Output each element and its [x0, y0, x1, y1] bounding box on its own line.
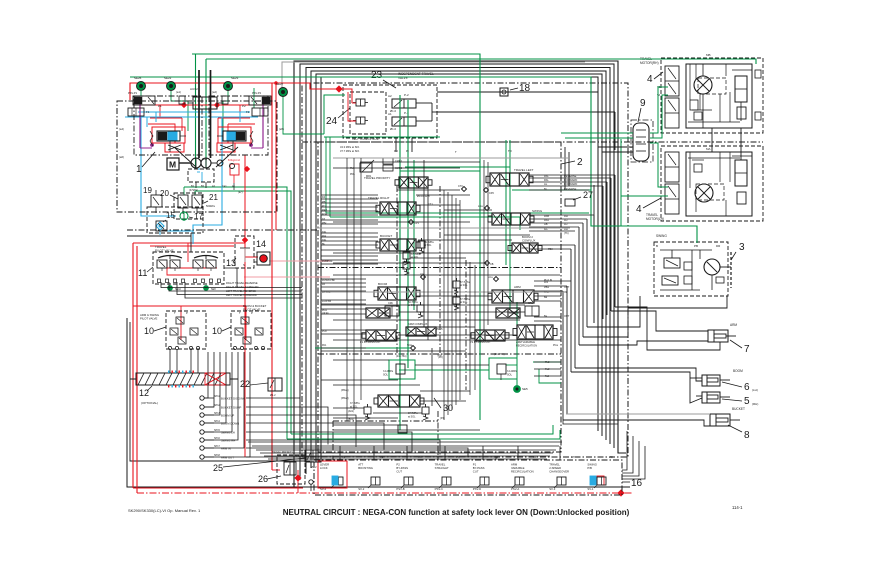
svg-text:BUCKET: BUCKET — [380, 234, 392, 238]
svg-text:SE23: SE23 — [231, 76, 239, 80]
svg-text:DOWN PBb: DOWN PBb — [322, 279, 335, 282]
boom cylinder 5 — [702, 392, 720, 403]
svg-text:RIGHT TRAVEL REVERSE: RIGHT TRAVEL REVERSE — [226, 281, 258, 285]
red swing pb solenoid — [597, 476, 604, 485]
pump swash diagonal right — [216, 147, 238, 167]
svg-text:MOTOR(RH): MOTOR(RH) — [640, 61, 659, 65]
svg-text:SWING RH: SWING RH — [221, 439, 235, 443]
pump regulator spool right — [223, 131, 246, 141]
bottom relief a — [364, 407, 371, 414]
svg-text:PSV-B: PSV-B — [396, 487, 404, 491]
svg-text:(a6): (a6) — [119, 155, 124, 159]
gear pump circle — [217, 160, 223, 166]
svg-text:PBt: PBt — [322, 201, 326, 204]
pump sensor SE23 — [224, 82, 233, 91]
port G circle — [309, 480, 313, 484]
port connector BOOM DOWN — [200, 421, 204, 425]
red to box 13 14 — [243, 238, 248, 243]
check valve 27 — [565, 199, 575, 206]
svg-text:DUMP Ak: DUMP Ak — [322, 260, 333, 263]
spool boom2 conflux — [512, 243, 538, 253]
swing motor relief valves — [664, 258, 680, 268]
wire valve23 to block — [395, 138, 397, 152]
svg-text:SV-4: SV-4 — [320, 487, 327, 491]
svg-text:LCa: LCa — [478, 205, 483, 208]
red left long verticals — [132, 243, 134, 488]
red pilot valves 10 supply — [133, 305, 246, 307]
svg-text:P2 BY-PASS CUT: P2 BY-PASS CUT — [470, 340, 491, 344]
wire bottom verticals into solenoid row — [317, 446, 319, 460]
svg-text:P-2: P-2 — [404, 93, 409, 97]
svg-text:(a5): (a5) — [279, 127, 284, 131]
svg-text:23: 23 — [371, 70, 383, 81]
control valve assembly outer dash-dot box — [302, 83, 628, 457]
svg-text:(a3): (a3) — [202, 157, 207, 161]
svg-text:Pa2: Pa2 — [545, 368, 550, 371]
hose coupler ticks top — [168, 371, 194, 374]
svg-text:BUCKET DIGGING: BUCKET DIGGING — [221, 397, 245, 401]
svg-text:PA1: PA1 — [322, 344, 327, 347]
travel motor LH swash dashed — [696, 184, 724, 200]
green relief connection left — [399, 369, 415, 371]
svg-text:DIG: DIG — [322, 231, 326, 234]
spool boom — [378, 287, 416, 300]
pump regulator spool left — [157, 131, 180, 141]
hose rupture item 12 — [136, 373, 230, 385]
svg-text:TRAVEL PRIORITY: TRAVEL PRIORITY — [272, 451, 293, 454]
wire motor feed right — [564, 147, 566, 190]
regulator spring left — [150, 131, 153, 146]
svg-text:Ø1.0: Ø1.0 — [390, 109, 397, 113]
svg-text:PAA: PAA — [544, 218, 549, 222]
svg-text:BL: BL — [544, 187, 548, 191]
valve 19 — [151, 195, 162, 207]
green line valve block vertical 1 — [399, 95, 401, 430]
valve 20 — [178, 195, 188, 208]
swing motor internal wires — [671, 250, 673, 258]
pump swash diagonal left — [174, 147, 196, 167]
check CB — [485, 261, 490, 266]
svg-text:SP13: SP13 — [214, 412, 221, 415]
svg-text:MOTOR(LH): MOTOR(LH) — [646, 217, 664, 221]
pump drain stubs — [195, 182, 197, 188]
spool p2 bypass cut — [475, 330, 505, 341]
pump unit dash-dot box — [117, 101, 277, 212]
svg-text:SWING: SWING — [532, 209, 543, 213]
pump sensor SE26 — [137, 82, 146, 91]
red vertical from box13 down — [244, 155, 246, 238]
svg-text:(47kPa): (47kPa) — [189, 188, 198, 192]
wire box13 outputs — [254, 261, 257, 263]
swing motor circle — [704, 259, 720, 275]
pump regulator sub dash-dot right — [209, 96, 268, 155]
svg-text:CB: CB — [490, 263, 494, 266]
svg-text:PBII: PBII — [548, 248, 553, 251]
svg-text:P2: P2 — [242, 104, 246, 108]
wire valve23 ports — [416, 102, 432, 104]
pilot relief MR1 — [360, 163, 372, 172]
red drops to pilot valve 11 — [187, 243, 189, 262]
svg-text:CRb: CRb — [388, 302, 394, 305]
svg-text:A8: A8 — [609, 455, 613, 459]
svg-text:6: 6 — [744, 382, 750, 393]
red inner loop pilot 11 — [167, 267, 217, 269]
check SOa — [411, 346, 416, 351]
svg-text:SWING LH: SWING LH — [221, 431, 235, 435]
spool travel right — [380, 202, 416, 215]
svg-text:LH: LH — [564, 222, 567, 226]
green line box23 loop — [324, 95, 345, 134]
svg-text:1: 1 — [136, 164, 142, 175]
arm holding valve CRa — [525, 306, 539, 316]
negacon relief bottom — [398, 425, 407, 433]
svg-text:CHANGEOVER: CHANGEOVER — [549, 470, 569, 474]
svg-text:(B01): (B01) — [348, 418, 354, 421]
red servo rect right — [217, 143, 235, 152]
svg-text:Plu2 IN: Plu2 IN — [544, 279, 552, 282]
red pump bottom small valve — [230, 164, 239, 175]
svg-text:A5: A5 — [495, 455, 499, 459]
svg-text:BOOM: BOOM — [733, 369, 743, 373]
svg-text:8: 8 — [744, 430, 750, 441]
red pump section lines — [140, 104, 265, 106]
hose coupler ticks bottom — [168, 385, 194, 388]
svg-text:F1: F1 — [146, 110, 150, 114]
wire block left stubs bottom — [321, 278, 366, 280]
wire swing pb — [587, 296, 640, 327]
valve 17 green — [180, 212, 188, 220]
svg-text:(OPTIONAL): (OPTIONAL) — [141, 401, 158, 405]
boom cylinder 6 — [702, 375, 720, 386]
svg-text:500kPa: 500kPa — [206, 204, 215, 208]
green verticals from box23 region — [325, 137, 327, 213]
main control valve block 2 dash-dot box — [318, 142, 561, 452]
pump regulator sub dash-dot left — [134, 96, 202, 155]
svg-text:8.0kg/cm2: 8.0kg/cm2 — [228, 158, 241, 162]
travel motor LH circle — [695, 184, 713, 202]
cyan regulator boxes — [168, 132, 177, 140]
port connector BOOM UP — [200, 413, 204, 417]
pump psv valve left — [133, 96, 155, 105]
svg-text:at SOL: at SOL — [460, 301, 468, 304]
svg-text:24: 24 — [326, 116, 338, 127]
spool travel priority — [399, 177, 428, 188]
svg-text:SV-1: SV-1 — [587, 487, 594, 491]
check LCa swing — [485, 206, 490, 211]
engine box M — [167, 158, 179, 170]
travel motor RH inner wires — [689, 64, 691, 100]
wire travel motor links — [593, 185, 595, 323]
wire block horizontals — [360, 161, 480, 163]
port connector ARM IN — [200, 446, 204, 450]
label 8 — [728, 425, 742, 432]
label 5 — [722, 399, 742, 401]
wire arm cylinder bottom line — [615, 307, 720, 350]
svg-text:A7: A7 — [571, 455, 575, 459]
swing pb blue solenoid — [590, 476, 596, 485]
svg-text:SE26: SE26 — [134, 76, 142, 80]
svg-text:A1: A1 — [342, 455, 346, 459]
red box 26 connection — [272, 469, 280, 471]
svg-text:(a2): (a2) — [212, 90, 217, 94]
svg-text:(241.75A): (241.75A) — [494, 353, 505, 356]
svg-text:M: M — [169, 160, 176, 170]
svg-text:TRAVEL PRIORITY: TRAVEL PRIORITY — [364, 176, 390, 180]
boom bucket pilot valve 10 dashed box — [231, 311, 271, 349]
wire pilot list vertical bundle — [204, 352, 208, 398]
cyan pump lower link — [201, 172, 203, 182]
travel motor LH dashed box — [661, 146, 763, 221]
svg-text:Ca1: Ca1 — [222, 185, 227, 188]
svg-text:SOL: SOL — [507, 374, 513, 377]
svg-text:(Tb): (Tb) — [564, 232, 569, 235]
svg-text:PAL: PAL — [544, 178, 549, 182]
wire pilot 10L port drops — [169, 350, 171, 373]
svg-text:MB: MB — [706, 53, 711, 57]
wire bottom bundle horizontals — [248, 441, 562, 443]
svg-text:at SOL: at SOL — [411, 256, 419, 259]
svg-text:PBa: PBa — [544, 286, 549, 289]
svg-text:27: 27 — [583, 190, 593, 200]
port connector SWING LH — [200, 430, 204, 434]
solenoid valve in box 24 lower — [356, 117, 365, 124]
spool arm — [492, 290, 534, 303]
pump black aux vertical wires — [198, 70, 200, 158]
wire between motors — [740, 128, 742, 160]
svg-text:MA: MA — [706, 147, 711, 151]
check valves CMR1 CMR2 — [383, 158, 393, 164]
svg-text:CRa: CRa — [528, 302, 534, 305]
pilot valve 10R ports — [233, 346, 236, 349]
svg-text:SE22: SE22 — [164, 76, 172, 80]
svg-text:PSV-P2: PSV-P2 — [252, 91, 262, 95]
relief boom mid — [417, 305, 424, 312]
svg-text:UP Ab: UP Ab — [322, 312, 329, 315]
svg-text:15: 15 — [166, 211, 175, 220]
wire arm cylinder top line — [611, 311, 708, 331]
bucket cylinder 8 — [710, 414, 730, 426]
svg-text:SP16: SP16 — [214, 437, 221, 440]
swing motor dashed box — [654, 242, 728, 296]
green line valve block vertical 3 — [413, 160, 415, 310]
valve 21 — [192, 195, 202, 208]
svg-text:CMR1: CMR1 — [395, 160, 403, 163]
svg-text:7: 7 — [744, 344, 750, 355]
red regulator outline right — [218, 127, 251, 143]
reliefs bucket ports — [403, 252, 410, 259]
svg-text:ARM OUT: ARM OUT — [221, 456, 234, 460]
svg-text:A3: A3 — [418, 455, 422, 459]
check CP1 — [409, 220, 414, 225]
servo internal hatch left — [168, 145, 181, 150]
wire outer frame bus 2 — [300, 64, 614, 480]
svg-text:PDL: PDL — [350, 173, 355, 176]
wire frame bottom right corner turns — [563, 420, 618, 424]
green line mid block horizontals — [326, 212, 589, 214]
svg-text:BOOM DOWN: BOOM DOWN — [221, 422, 239, 426]
svg-text:RECIRCULATION: RECIRCULATION — [516, 344, 537, 348]
svg-text:(RH): (RH) — [752, 402, 758, 406]
svg-text:P1 BY-PASS CUT: P1 BY-PASS CUT — [360, 340, 381, 344]
svg-text:SP15: SP15 — [214, 429, 221, 432]
travel motor LH counterbalance valve — [735, 160, 747, 186]
port connector ARM OUT — [200, 455, 204, 459]
magenta pump lines — [139, 100, 141, 148]
travel motor LH spool valves strip — [665, 152, 679, 182]
svg-text:S: S — [243, 263, 245, 267]
svg-text:ARM VARIABLE: ARM VARIABLE — [516, 340, 535, 344]
svg-text:22: 22 — [240, 379, 250, 389]
svg-text:AL: AL — [544, 182, 548, 186]
svg-text:A2: A2 — [388, 94, 392, 98]
svg-text:CMR2: CMR2 — [395, 167, 403, 170]
arm cylinder 7 — [708, 330, 728, 342]
svg-text:PILOT VALVE: PILOT VALVE — [140, 317, 158, 321]
pilot valve 11 pedal arcs — [158, 256, 182, 259]
svg-text:(LH): (LH) — [752, 388, 758, 392]
svg-text:A6: A6 — [533, 455, 537, 459]
svg-text:SV-3: SV-3 — [549, 487, 556, 491]
svg-text:FOR: FOR — [322, 213, 327, 216]
wire block gray rails — [333, 157, 570, 159]
check LCa arm — [494, 277, 499, 282]
cyan pump tank symbol — [194, 168, 203, 170]
solenoid valve in box 24 upper — [356, 99, 365, 106]
svg-text:DIG: DIG — [322, 239, 326, 242]
spool bucket — [380, 239, 416, 251]
svg-text:RIGHT TRAVEL FORWARD: RIGHT TRAVEL FORWARD — [226, 285, 259, 289]
svg-text:CP1: CP1 — [414, 222, 419, 225]
svg-text:Ø1.2: Ø1.2 — [270, 393, 276, 397]
svg-text:19: 19 — [143, 186, 152, 195]
svg-text:CT1: CT1 — [428, 203, 433, 206]
wire center section verticals — [423, 160, 425, 327]
svg-text:SE10: SE10 — [175, 288, 182, 291]
svg-text:ARM: ARM — [730, 323, 737, 327]
svg-text:STRAIGHT: STRAIGHT — [435, 466, 449, 470]
pump circle 2 — [201, 158, 211, 168]
travel motor RH dashed box — [661, 58, 763, 133]
ind travel sol 24 dashed box — [350, 92, 386, 134]
wire outer frame bus 1 — [294, 61, 626, 487]
svg-text:PCb: PCb — [322, 330, 327, 333]
wire block right stubs bottom — [534, 280, 571, 282]
svg-text:TRAVEL LEFT: TRAVEL LEFT — [514, 168, 534, 172]
svg-text:OUT: OUT — [564, 286, 570, 289]
svg-text:AUX2: AUX2 — [190, 87, 198, 91]
spool arm2 conflux — [406, 327, 436, 336]
label 6 — [722, 382, 742, 387]
green line motor RH VB — [650, 87, 668, 133]
wire through connector 18 — [437, 91, 598, 93]
svg-text:Pi: Pi — [406, 149, 409, 153]
svg-text:FORWARD: FORWARD — [564, 182, 577, 186]
red pink outputs box14 — [269, 260, 330, 262]
svg-text:LOCK: LOCK — [320, 466, 328, 470]
green PA1 line — [315, 347, 410, 349]
spool arm variable recirculation — [517, 325, 553, 339]
red lever lock cell border — [318, 461, 347, 488]
svg-text:P1: P1 — [158, 104, 162, 108]
svg-text:SE5: SE5 — [522, 387, 528, 391]
pump shaft wires — [179, 162, 191, 164]
svg-text:PSV-P1: PSV-P1 — [128, 91, 138, 95]
travel pilot valve 11 dashed box — [153, 252, 224, 284]
wire outer frame bus 6 — [321, 77, 598, 456]
svg-text:17: 17 — [194, 212, 203, 221]
svg-text:CT0: CT0 — [458, 185, 463, 188]
svg-text:at SOL: at SOL — [460, 284, 468, 287]
green block horizontals top — [405, 166, 510, 168]
small spool arm holding — [496, 308, 520, 318]
svg-text:BOOM: BOOM — [378, 282, 388, 286]
svg-text:SOa: SOa — [407, 344, 413, 347]
svg-text:ARM COMPLUX: ARM COMPLUX — [408, 322, 428, 326]
svg-text:FORWARD: FORWARD — [564, 178, 577, 182]
svg-text:5: 5 — [744, 396, 750, 407]
dash-dot pilot region boundary — [127, 229, 318, 231]
svg-text:(PRa2): (PRa2) — [341, 397, 349, 400]
travel motor RH inner box — [686, 64, 752, 128]
svg-text:BOOSTING: BOOSTING — [358, 466, 373, 470]
svg-text:SOL.: SOL. — [295, 455, 301, 458]
wire block right stubs top — [529, 174, 615, 176]
svg-text:9: 9 — [640, 98, 646, 109]
pilot sensor SE8 — [204, 286, 209, 291]
travel motor RH relief left — [690, 100, 698, 110]
svg-text:16: 16 — [631, 478, 643, 489]
svg-text:LCb: LCb — [420, 273, 425, 276]
wire box23 travel straight line right — [437, 111, 615, 113]
main relief left green box — [389, 360, 415, 379]
travel motor RH swash dashed — [698, 78, 726, 94]
pump sensor SE27 — [279, 88, 288, 97]
red top pump line — [130, 83, 339, 100]
spool travel straight bottom — [378, 395, 420, 407]
check LCb boom — [421, 275, 426, 280]
svg-text:26: 26 — [258, 474, 268, 484]
reliefs boom ports — [453, 281, 460, 288]
svg-text:T: T — [455, 150, 457, 154]
svg-text:PAB: PAB — [544, 214, 549, 218]
svg-text:SE8: SE8 — [211, 288, 216, 291]
svg-text:25: 25 — [213, 463, 223, 473]
green top line 1 — [192, 54, 480, 420]
green line motor RH VA — [650, 95, 668, 138]
red pilot supply line — [133, 242, 245, 244]
svg-text:34.3 MPa at ISO.: 34.3 MPa at ISO. — [340, 145, 360, 149]
svg-text:RECIRCULATION: RECIRCULATION — [511, 470, 534, 474]
sub box dashed 20 21 — [174, 193, 203, 219]
svg-text:Ta2: Ta2 — [545, 375, 550, 378]
svg-text:LEFT TRAVEL FORWARD: LEFT TRAVEL FORWARD — [226, 293, 257, 297]
svg-text:F2: F2 — [246, 110, 250, 114]
green top line 2 long to travel motors — [206, 59, 756, 64]
pump top ports flange — [193, 97, 217, 109]
svg-text:NEUTRAL CIRCUIT : NEGA-CON fun: NEUTRAL CIRCUIT : NEGA-CON function at s… — [283, 508, 630, 517]
block section dash-dot dividers — [396, 186, 398, 354]
accumulator 14 — [257, 252, 270, 265]
port connector BUCKET DIGGING — [200, 396, 204, 400]
wire bundle right verticals — [562, 291, 564, 420]
servo internal hatch right — [220, 145, 233, 150]
wire travel pilot drop — [224, 268, 237, 288]
wire left inner black line — [130, 322, 310, 461]
pilot valve 10L ports — [168, 346, 171, 349]
pump sensor stem SE26 — [140, 90, 142, 96]
spool p1 bypass cut — [366, 330, 396, 341]
svg-text:ARM: ARM — [514, 285, 521, 289]
